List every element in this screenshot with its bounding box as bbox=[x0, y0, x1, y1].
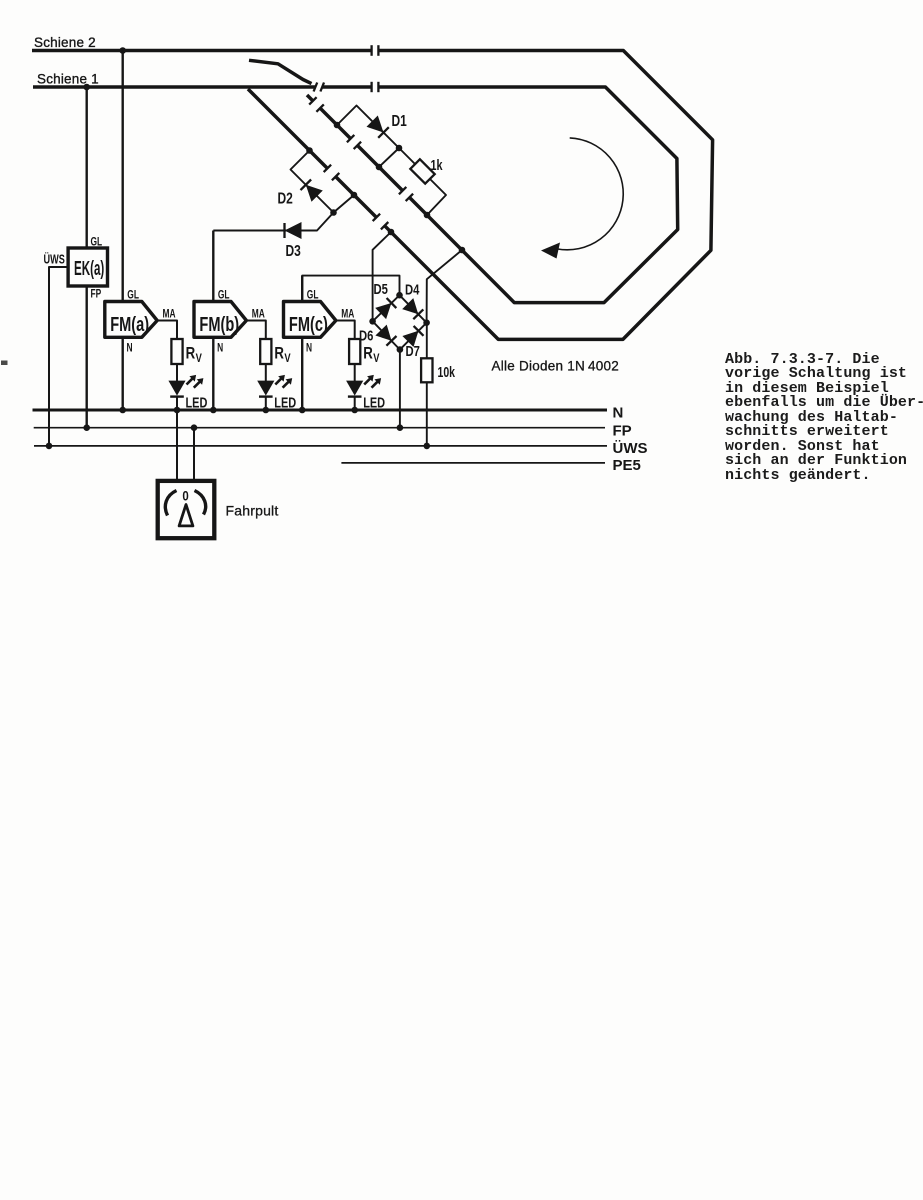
bus N bbox=[33, 409, 608, 412]
svg-text:0: 0 bbox=[182, 487, 188, 503]
wire EK(a) GL from Schiene 1 bbox=[85, 87, 87, 248]
wire FM N pin to N bus at x=213.3 bbox=[212, 337, 214, 410]
turnout blade from Schiene 2 bbox=[249, 60, 312, 83]
svg-text:R: R bbox=[363, 344, 373, 363]
svg-text:GL: GL bbox=[218, 289, 230, 302]
node bridge left bbox=[369, 318, 376, 325]
node on lower rail to bridge left bbox=[388, 229, 395, 236]
svg-text:V: V bbox=[284, 352, 291, 365]
wire FM(b) MA to RV bbox=[246, 321, 265, 340]
insulated joint on Schiene 1 (at turnout) bbox=[314, 83, 324, 92]
diode D1 bbox=[367, 116, 389, 138]
svg-text:LED: LED bbox=[274, 394, 296, 411]
wire Fahrpult to N bus bbox=[176, 410, 178, 481]
node Fahrpult / FP bus bbox=[191, 424, 198, 431]
wire FM(c) MA to RV bbox=[336, 321, 355, 340]
node on rail after 1k bypass bbox=[424, 212, 431, 219]
diode D6 bbox=[375, 325, 396, 346]
node bridge bottom bbox=[397, 346, 404, 353]
svg-text:MA: MA bbox=[341, 308, 354, 321]
function module FM(c) bbox=[284, 302, 336, 338]
rail Schiene 2 (left segment) bbox=[32, 49, 372, 53]
node Schiene 1 / EK(a) bbox=[83, 84, 90, 91]
caption text block bbox=[725, 353, 923, 484]
svg-text:PE5: PE5 bbox=[613, 457, 641, 474]
wire FM N pin to N bus at x=122.7 bbox=[121, 337, 123, 410]
insulated joint on Schiene 1 (right) bbox=[372, 82, 379, 92]
svg-text:Schiene 2: Schiene 2 bbox=[34, 35, 96, 50]
wire D1 bypass bbox=[337, 106, 399, 168]
svg-text:GL: GL bbox=[91, 236, 103, 249]
svg-text:GL: GL bbox=[307, 289, 319, 302]
svg-text:D4: D4 bbox=[405, 281, 420, 298]
insulated joint on Schiene 2 bbox=[372, 45, 379, 56]
svg-text:N: N bbox=[306, 342, 312, 355]
resistor RV (FM(c)) bbox=[349, 339, 360, 364]
wire D3 to FM(b) GL bbox=[213, 213, 333, 231]
diode D4 bbox=[402, 298, 423, 319]
node on rail at D1 bypass start bbox=[334, 122, 341, 129]
LED FM(b) bbox=[257, 375, 292, 397]
diode D3 bbox=[285, 222, 302, 239]
wire bridge right to upper rail bbox=[427, 250, 462, 323]
wire LED to N bus (FM(a)) bbox=[176, 397, 178, 410]
wire LED to N bus (FM(c)) bbox=[354, 397, 356, 410]
svg-text:Schiene 1: Schiene 1 bbox=[37, 72, 99, 87]
svg-text:EK(a): EK(a) bbox=[74, 258, 104, 280]
svg-text:MA: MA bbox=[252, 308, 265, 321]
resistor 1k body bbox=[410, 159, 434, 183]
node on upper rail to bridge right bbox=[459, 247, 466, 254]
svg-text:N: N bbox=[613, 405, 624, 422]
svg-text:Fahrpult: Fahrpult bbox=[226, 503, 279, 519]
insulated joint on upper siding rail (first) bbox=[309, 97, 324, 112]
svg-text:D1: D1 bbox=[392, 111, 407, 129]
siding rail upper, stub below Schiene 1 bbox=[307, 95, 313, 101]
svg-text:LED: LED bbox=[363, 394, 385, 411]
wire bridge top to FM(c) GL bbox=[302, 276, 399, 302]
wire FM(c) GL (short) bbox=[301, 276, 303, 302]
svg-text:R: R bbox=[186, 344, 196, 363]
diode D7 bbox=[402, 326, 423, 347]
node D1/1k bypass corner bbox=[396, 145, 403, 152]
diode D2 bbox=[301, 180, 323, 202]
svg-text:N: N bbox=[127, 342, 133, 355]
svg-text:10k: 10k bbox=[438, 363, 456, 380]
svg-text:D2: D2 bbox=[278, 189, 293, 207]
rail Schiene 1 (left segment) bbox=[33, 85, 315, 89]
wire D2 bypass bbox=[291, 151, 355, 213]
loop direction arrow bbox=[541, 138, 623, 259]
siding rail upper, segment 2 bbox=[357, 145, 402, 190]
wire LED to N bus (FM(b)) bbox=[265, 397, 267, 410]
wire EK(a) UWS to UWS bus bbox=[49, 267, 68, 446]
svg-text:1k: 1k bbox=[431, 156, 444, 173]
function module FM(b) bbox=[194, 302, 246, 338]
rail Schiene 1 (middle segment) bbox=[322, 85, 371, 89]
svg-text:D5: D5 bbox=[374, 280, 388, 297]
svg-text:V: V bbox=[373, 352, 380, 365]
box EK(a) bbox=[68, 248, 107, 286]
svg-text:LED: LED bbox=[186, 394, 208, 411]
wire bridge right to 10k to UWS bus bbox=[426, 323, 428, 359]
node F (D2/D3 junction) bbox=[330, 209, 337, 216]
node bridge bottom / FP bus bbox=[397, 424, 404, 431]
node bridge right bbox=[423, 319, 430, 326]
node LED/N bus (FM(c)) bbox=[351, 407, 358, 414]
svg-text:GL: GL bbox=[127, 289, 139, 302]
LED FM(c) bbox=[346, 375, 381, 397]
bus UWS bbox=[34, 445, 607, 447]
siding rail lower, segment from Schiene 1 bbox=[248, 89, 327, 168]
svg-text:V: V bbox=[196, 352, 203, 365]
siding rail upper, segment 1 bbox=[320, 108, 351, 139]
node LED/N bus (FM(a)) bbox=[174, 407, 181, 414]
node on rail between D1 and 1k bypass bbox=[376, 164, 383, 171]
svg-text:ÜWS: ÜWS bbox=[613, 440, 648, 457]
diode D5 bbox=[375, 298, 396, 319]
node Schiene 2 / FM(a) bbox=[119, 47, 126, 54]
wire FM N pin to N bus at x=302.2 bbox=[301, 337, 303, 410]
wire FM(a) GL from Schiene 2 bbox=[121, 51, 123, 302]
node UWS wire / UWS bus bbox=[46, 443, 53, 450]
resistor RV (FM(a)) bbox=[171, 339, 182, 364]
function module FM(a) bbox=[105, 302, 157, 338]
wire FM(b) GL from D3 bbox=[212, 231, 214, 302]
svg-text:FP: FP bbox=[613, 422, 632, 439]
bus PE5 bbox=[341, 462, 605, 464]
resistor 10k body bbox=[421, 358, 432, 382]
scan speck left edge bbox=[1, 361, 8, 366]
svg-text:MA: MA bbox=[163, 308, 176, 321]
svg-text:R: R bbox=[274, 344, 284, 363]
insulated joint on lower siding rail (halt section) bbox=[373, 214, 389, 230]
Fahrpult dial symbol bbox=[165, 487, 205, 526]
svg-text:N: N bbox=[217, 342, 223, 355]
svg-text:FM(a): FM(a) bbox=[110, 313, 149, 336]
wire bridge bottom to FP bus bbox=[399, 350, 401, 428]
wire EK(a) FP to FP bus bbox=[85, 286, 87, 428]
wire RV to LED (FM(a)) bbox=[176, 364, 178, 381]
node EK FP / FP bus bbox=[83, 424, 90, 431]
svg-text:Alle Dioden 1N 4002: Alle Dioden 1N 4002 bbox=[492, 359, 620, 374]
node on rail at D2 bypass start bbox=[306, 147, 313, 154]
wire RV to LED (FM(b)) bbox=[265, 364, 267, 381]
node on rail at D2 bypass end bbox=[351, 192, 358, 199]
wire 1k bypass bbox=[399, 148, 446, 215]
svg-text:FM(b): FM(b) bbox=[199, 313, 239, 336]
svg-text:D7: D7 bbox=[406, 342, 420, 359]
node bridge top bbox=[396, 292, 403, 299]
svg-text:D3: D3 bbox=[286, 241, 301, 259]
wire FM(a) MA to RV bbox=[157, 321, 177, 340]
insulated joint on lower siding rail (D2 section) bbox=[324, 165, 340, 181]
outer track loop (continuation of Schiene 2) bbox=[378, 51, 712, 340]
node 10k / UWS bus bbox=[424, 443, 431, 450]
wire Fahrpult to FP bus bbox=[193, 428, 195, 481]
svg-text:FP: FP bbox=[91, 288, 102, 301]
siding rail lower, middle segment bbox=[336, 177, 377, 218]
wire bridge edges bbox=[373, 295, 427, 349]
svg-text:ÜWS: ÜWS bbox=[44, 252, 65, 267]
svg-text:FM(c): FM(c) bbox=[289, 313, 328, 336]
bus FP bbox=[34, 427, 605, 429]
box Fahrpult bbox=[158, 481, 215, 538]
resistor RV (FM(b)) bbox=[260, 339, 271, 364]
LED FM(a) bbox=[168, 375, 203, 397]
wire bridge left to lower rail bbox=[373, 232, 391, 321]
node LED/N bus (FM(b)) bbox=[263, 407, 270, 414]
insulated joint on upper siding rail (1k gap) bbox=[399, 187, 413, 201]
insulated joint on upper siding rail (D1 gap) bbox=[347, 135, 361, 149]
wire RV to LED (FM(c)) bbox=[354, 364, 356, 381]
inner track loop (continuation of Schiene 1) bbox=[378, 87, 677, 303]
